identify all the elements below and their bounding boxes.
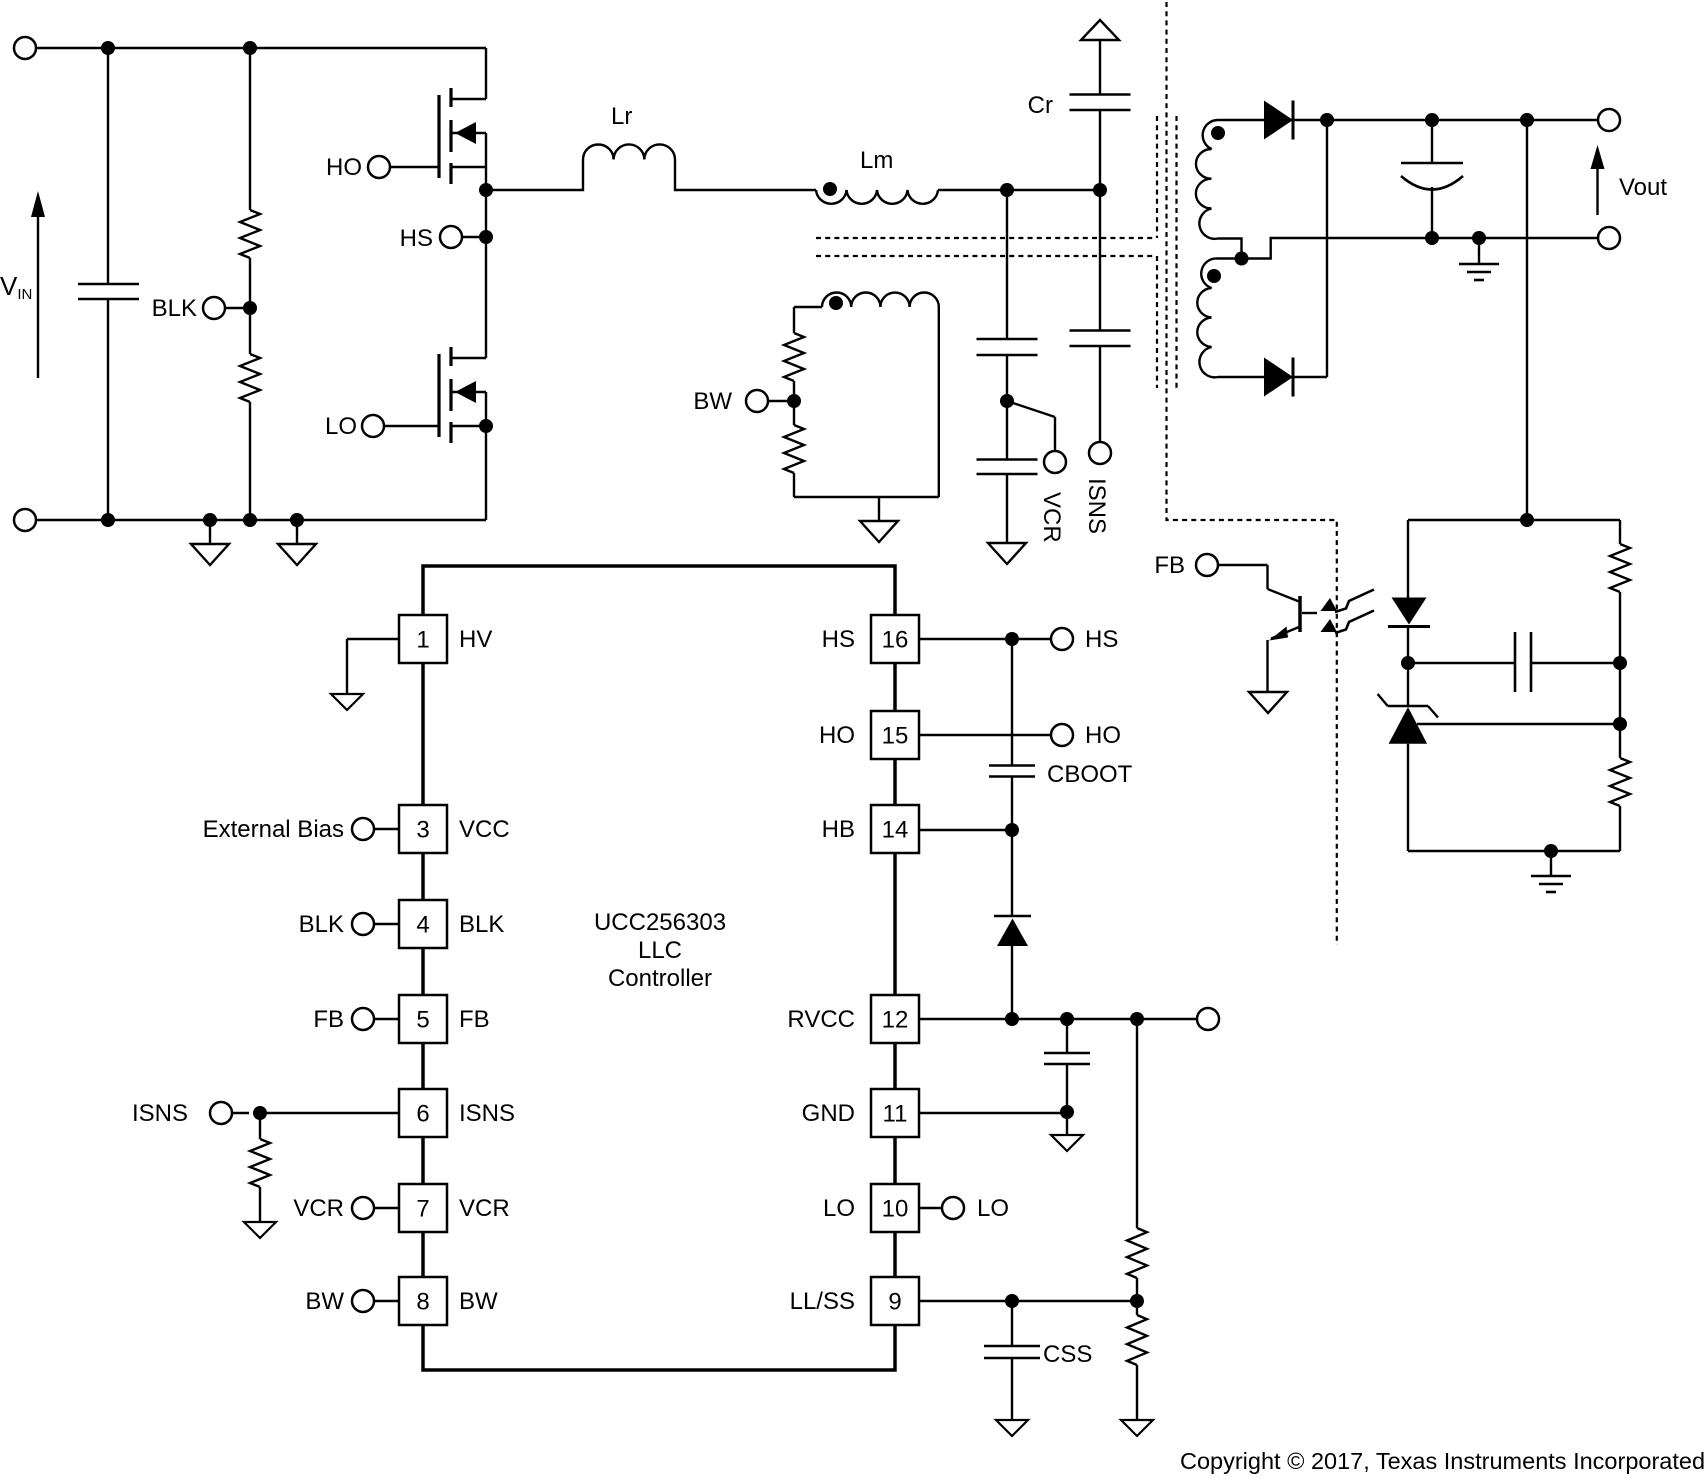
svg-text:LO: LO	[977, 1195, 1009, 1222]
svg-text:Cr: Cr	[1028, 92, 1053, 119]
svg-text:BW: BW	[693, 388, 732, 415]
svg-text:ISNS: ISNS	[1083, 478, 1110, 534]
svg-text:Controller: Controller	[608, 965, 712, 992]
svg-text:5: 5	[416, 1007, 429, 1034]
svg-text:FB: FB	[1154, 552, 1185, 579]
svg-text:RVCC: RVCC	[787, 1006, 855, 1033]
svg-text:15: 15	[882, 723, 909, 750]
svg-text:6: 6	[416, 1101, 429, 1128]
svg-text:Lm: Lm	[860, 147, 893, 174]
svg-text:VCR: VCR	[1038, 492, 1065, 543]
svg-text:LL/SS: LL/SS	[790, 1288, 855, 1315]
svg-text:Vout: Vout	[1619, 174, 1667, 201]
svg-text:12: 12	[882, 1007, 909, 1034]
svg-text:BLK: BLK	[459, 911, 504, 938]
svg-text:16: 16	[882, 627, 909, 654]
svg-text:BW: BW	[305, 1288, 344, 1315]
svg-text:7: 7	[416, 1196, 429, 1223]
svg-text:HO: HO	[1085, 722, 1121, 749]
svg-text:HO: HO	[326, 154, 362, 181]
svg-text:VCR: VCR	[459, 1195, 510, 1222]
svg-text:BLK: BLK	[299, 911, 344, 938]
svg-text:BLK: BLK	[152, 295, 197, 322]
svg-text:FB: FB	[313, 1006, 344, 1033]
svg-text:14: 14	[882, 817, 909, 844]
svg-text:HS: HS	[400, 225, 433, 252]
svg-text:ISNS: ISNS	[459, 1100, 515, 1127]
svg-text:GND: GND	[802, 1100, 855, 1127]
svg-text:Copyright © 2017, Texas Instru: Copyright © 2017, Texas Instruments Inco…	[1180, 1448, 1705, 1474]
svg-text:VCC: VCC	[459, 816, 510, 843]
svg-text:HB: HB	[822, 816, 855, 843]
svg-text:HV: HV	[459, 626, 492, 653]
svg-text:9: 9	[888, 1289, 901, 1316]
svg-text:LO: LO	[823, 1195, 855, 1222]
svg-text:VCR: VCR	[293, 1195, 344, 1222]
svg-text:HS: HS	[1085, 626, 1118, 653]
svg-text:BW: BW	[459, 1288, 498, 1315]
svg-text:11: 11	[883, 1101, 908, 1128]
svg-text:3: 3	[416, 817, 429, 844]
svg-text:FB: FB	[459, 1006, 490, 1033]
svg-text:CBOOT: CBOOT	[1047, 761, 1133, 788]
svg-text:LLC: LLC	[638, 937, 682, 964]
svg-text:4: 4	[416, 912, 429, 939]
svg-text:HO: HO	[819, 722, 855, 749]
svg-text:External Bias: External Bias	[203, 816, 344, 843]
svg-text:CSS: CSS	[1043, 1341, 1092, 1368]
svg-text:10: 10	[882, 1196, 909, 1223]
svg-text:1: 1	[416, 627, 429, 654]
svg-text:LO: LO	[325, 413, 357, 440]
svg-text:HS: HS	[822, 626, 855, 653]
svg-text:ISNS: ISNS	[132, 1100, 188, 1127]
svg-text:8: 8	[416, 1289, 429, 1316]
svg-text:UCC256303: UCC256303	[594, 909, 726, 936]
svg-text:Lr: Lr	[611, 103, 632, 130]
